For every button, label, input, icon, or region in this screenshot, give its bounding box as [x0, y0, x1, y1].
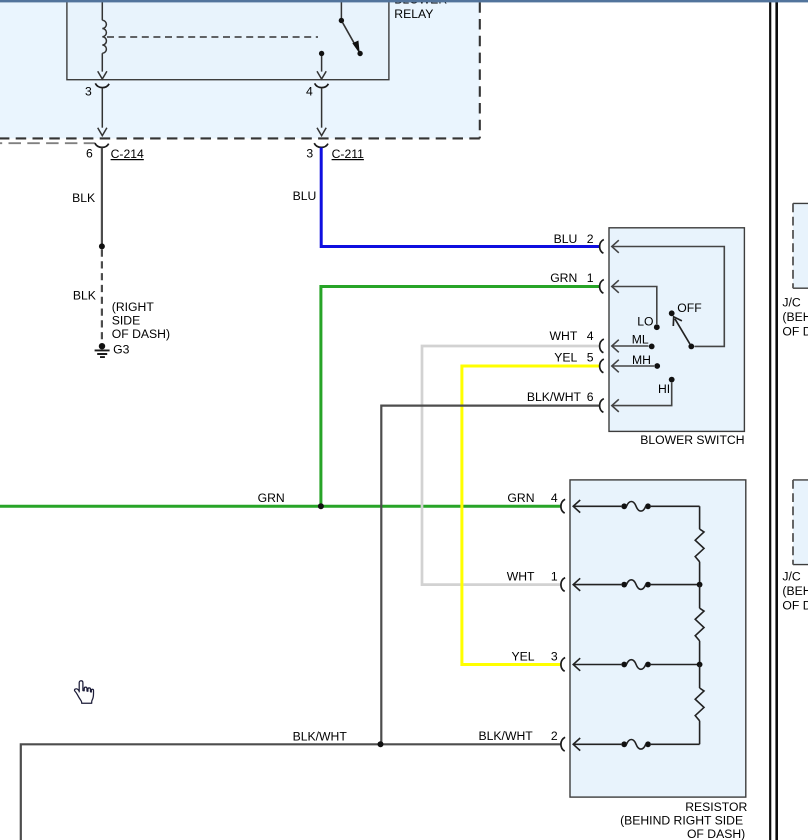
relay control dashed link [107, 36, 318, 38]
label GRN 4 at resistor [507, 491, 557, 505]
J/C junction box upper right [782, 203, 808, 338]
relay K1 box (BLOWER RELAY) [67, 0, 389, 80]
svg-text:6: 6 [587, 390, 594, 404]
label BLU 2 at switch [554, 232, 594, 246]
svg-text:RESISTOR: RESISTOR [685, 800, 747, 814]
svg-text:BLOWER SWITCH: BLOWER SWITCH [640, 433, 744, 447]
label BLK/WHT 6 at switch [527, 390, 594, 404]
connector C-211 [306, 143, 364, 161]
blower switch box [609, 228, 744, 432]
OFF contact dot [669, 301, 702, 316]
blower switch pin 6 terminal cup [600, 399, 604, 413]
HI contact dot [658, 377, 675, 396]
resistor pin 3 terminal cup [561, 658, 565, 672]
resistor box [570, 480, 746, 797]
wire GRN horizontal run to resistor pin 4 [0, 505, 561, 508]
label GRN mid [258, 491, 285, 505]
svg-text:1: 1 [551, 569, 558, 583]
svg-text:YEL: YEL [554, 351, 577, 365]
svg-text:J/C: J/C [782, 295, 800, 309]
big dashed connector box (top, light blue) [0, 2, 480, 138]
blower switch pin 1 terminal cup [600, 280, 604, 294]
relay pin 3 cup and arrow to connector [95, 83, 109, 135]
svg-text:BLU: BLU [293, 189, 317, 203]
svg-text:GRN: GRN [507, 491, 534, 505]
ML contact dot [632, 333, 655, 350]
location note (RIGHT SIDE OF DASH) [112, 300, 170, 341]
label BLK lower [73, 289, 96, 303]
resistor pin 4 terminal cup [561, 499, 565, 513]
blower switch pin 4 terminal cup [600, 339, 604, 353]
svg-text:OFF: OFF [677, 301, 701, 315]
svg-text:3: 3 [85, 85, 92, 99]
svg-text:(BEHIND RIGHT SIDE: (BEHIND RIGHT SIDE [620, 814, 743, 828]
svg-text:BLK/WHT: BLK/WHT [293, 729, 348, 743]
resistor pin 3 internal lead with thermal limiter [573, 658, 699, 671]
svg-text:BLK/WHT: BLK/WHT [479, 729, 534, 743]
svg-text:4: 4 [306, 85, 313, 99]
label BLK/WHT left of junction [293, 729, 348, 743]
relay pin 4 cup and arrow to connector [315, 83, 329, 135]
svg-text:(BEH: (BEH [782, 584, 808, 598]
resistor pin 2 terminal cup [561, 737, 565, 751]
blower switch pin 2 terminal cup [600, 240, 604, 254]
label WHT 4 at switch [550, 329, 594, 343]
wire BLU from C-211 to blower switch pin 2 [321, 148, 599, 247]
svg-text:OF DASH): OF DASH) [687, 827, 745, 840]
switch pin 5 internal lead to MH [612, 360, 654, 373]
svg-text:1: 1 [587, 271, 594, 285]
mouse hand cursor [74, 681, 93, 704]
svg-text:WHT: WHT [550, 329, 578, 343]
svg-text:(BEH: (BEH [782, 310, 808, 324]
junction on GRN wire [318, 503, 324, 509]
svg-text:6: 6 [86, 147, 93, 161]
svg-text:4: 4 [587, 329, 594, 343]
svg-text:LO: LO [637, 315, 653, 329]
svg-text:OF D: OF D [782, 599, 808, 613]
resistor element R2 [695, 585, 704, 665]
relay pin 4 label [306, 85, 313, 99]
junction dot row 3 [697, 662, 703, 668]
svg-text:BLK/WHT: BLK/WHT [527, 390, 582, 404]
LO contact dot [637, 315, 659, 331]
svg-text:J/C: J/C [782, 570, 800, 584]
resistor element R1 [695, 506, 704, 584]
switch pin 2 internal lead to common [612, 240, 725, 346]
resistor pin 4 internal lead with thermal limiter [573, 500, 699, 513]
junction dot row 2 [697, 582, 703, 588]
wire BLK/WHT from switch pin 6 [381, 406, 599, 745]
svg-text:BLK: BLK [72, 191, 95, 205]
switch common pivot dot [688, 344, 694, 350]
svg-text:YEL: YEL [511, 649, 534, 663]
svg-text:BLU: BLU [554, 232, 578, 246]
gray box edge fragment (left) [0, 142, 95, 144]
relay pin 3 label [85, 85, 92, 99]
switch pin 1 internal lead to LO [612, 280, 657, 324]
svg-text:GRN: GRN [258, 491, 285, 505]
ground G3 [95, 343, 130, 358]
resistor pin 2 internal lead with thermal limiter [573, 738, 699, 751]
connector C-214 [86, 143, 144, 161]
svg-text:BLK: BLK [73, 289, 96, 303]
switch wiper arm pointing at OFF [673, 317, 690, 344]
blower switch name [640, 433, 744, 447]
svg-text:4: 4 [551, 491, 558, 505]
relay switch contact [339, 2, 363, 56]
svg-text:2: 2 [587, 232, 594, 246]
svg-text:(RIGHT: (RIGHT [112, 300, 155, 314]
svg-text:G3: G3 [113, 343, 129, 357]
top window bar [0, 0, 808, 2]
svg-text:5: 5 [587, 351, 594, 365]
MH contact dot [632, 353, 660, 369]
svg-text:GRN: GRN [550, 271, 577, 285]
resistor pin 1 terminal cup [561, 578, 565, 592]
svg-text:C-214: C-214 [111, 147, 144, 161]
svg-text:ML: ML [632, 333, 649, 347]
wire GRN branch to blower switch pin 1 [321, 287, 600, 507]
label BLK upper [72, 191, 95, 205]
wire BLK dashed to ground [101, 250, 103, 342]
wire BLK/WHT horizontal run and drop at left [21, 744, 561, 840]
relay name label [394, 0, 447, 21]
wire WHT from switch pin 4 to resistor pin 1 [422, 346, 599, 585]
relay pin 4 internal lead [317, 51, 326, 79]
svg-text:RELAY: RELAY [394, 7, 433, 21]
svg-text:C-211: C-211 [332, 147, 365, 161]
junction on BLK wire [99, 243, 105, 249]
blower switch pin 5 terminal cup [600, 359, 604, 373]
wire BLK solid from C-214 [101, 148, 103, 245]
label BLU [293, 189, 317, 203]
label WHT 1 at resistor [507, 569, 558, 583]
junction on BLK/WHT wire [378, 741, 384, 747]
svg-text:2: 2 [551, 729, 558, 743]
J/C junction box lower right [782, 480, 808, 613]
label YEL 5 at switch [554, 351, 593, 365]
svg-text:OF DASH): OF DASH) [112, 327, 170, 341]
label YEL 3 at resistor [511, 649, 557, 663]
svg-text:SIDE: SIDE [112, 313, 140, 327]
svg-text:3: 3 [306, 147, 313, 161]
label BLK/WHT 2 at resistor [479, 729, 558, 743]
label GRN 1 at switch [550, 271, 594, 285]
switch pin 4 internal lead to ML [612, 340, 649, 353]
wire YEL from switch pin 5 to resistor pin 3 [462, 366, 600, 665]
svg-text:OF D: OF D [782, 324, 808, 338]
svg-text:MH: MH [632, 353, 651, 367]
page border double line [770, 2, 777, 840]
resistor name and location [620, 800, 747, 840]
svg-text:3: 3 [551, 649, 558, 663]
resistor pin 1 internal lead with thermal limiter [573, 578, 699, 591]
switch pin 6 internal lead to HI [612, 383, 672, 412]
relay coil [98, 2, 107, 79]
svg-text:HI: HI [658, 382, 670, 396]
svg-text:WHT: WHT [507, 569, 535, 583]
resistor element R3 [695, 665, 704, 745]
